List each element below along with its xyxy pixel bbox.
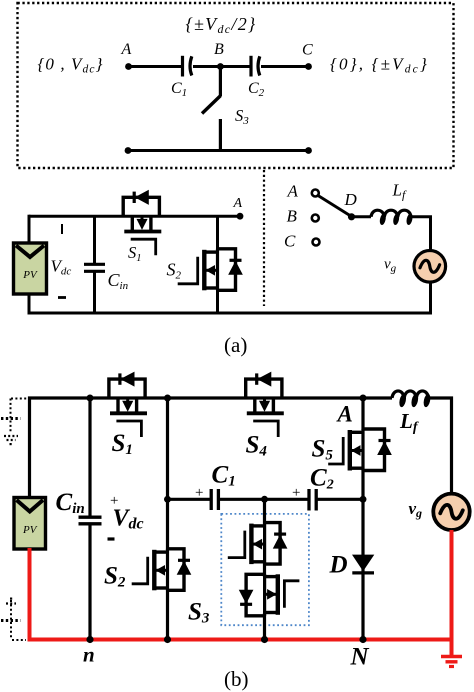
capacitor Cin (b): [79, 398, 102, 640]
switch S3 (concept): [202, 67, 221, 151]
svg-text:D: D: [344, 190, 358, 209]
svg-text:B: B: [214, 41, 224, 58]
S3 dotted box: [221, 514, 309, 625]
dotted divider (a): [263, 170, 265, 306]
node C: [305, 63, 312, 70]
node B: [217, 63, 224, 70]
svg-text:S5: S5: [312, 436, 334, 464]
PV panel (b): [14, 498, 46, 550]
(a) top wire: [29, 215, 240, 218]
junction dots on red rail: [86, 636, 93, 643]
wire between S3 mosfets: [263, 562, 266, 577]
node A (b): [360, 395, 367, 402]
wire A-B-C top line: [129, 65, 309, 68]
capacitor Cin (a): [84, 216, 105, 313]
wire into S3 box: [263, 499, 266, 524]
svg-text:S3: S3: [188, 599, 210, 627]
switch S3 upper mosfet: [228, 523, 287, 565]
svg-text:PV: PV: [22, 269, 38, 281]
svg-text:Cin: Cin: [56, 489, 85, 517]
svg-text:C2: C2: [310, 465, 334, 493]
ground symbol: [441, 657, 462, 667]
wire D to Lf (a): [352, 215, 372, 218]
svg-text:+: +: [195, 485, 203, 501]
svg-text:n: n: [83, 643, 95, 667]
wire vg to bottom (a): [429, 281, 432, 315]
PV panel (a): [14, 243, 47, 294]
wire S5 to C2 node: [361, 469, 364, 499]
minus (a): [58, 296, 66, 299]
svg-text:Cin: Cin: [108, 270, 129, 292]
svg-text:{0 , Vdc}: {0 , Vdc}: [38, 55, 104, 76]
svg-text:B: B: [287, 207, 298, 226]
node A (a): [237, 213, 244, 220]
(b) top wire: [30, 398, 452, 498]
diode D: [361, 499, 364, 639]
svg-text:(b): (b): [224, 667, 249, 691]
svg-text:S1: S1: [128, 243, 142, 264]
svg-text:S4: S4: [246, 432, 268, 460]
(a) bottom wire: [29, 312, 431, 315]
svg-text:S1: S1: [112, 430, 133, 458]
wire Lf to vg (a): [411, 217, 431, 252]
svg-text:N: N: [350, 644, 370, 671]
inductor Lf (b): [392, 391, 429, 398]
junction dot Vdc branch top: [164, 395, 171, 402]
red return rail: [28, 530, 452, 655]
source vg (b): [433, 494, 469, 530]
switch blade D (a): [318, 196, 352, 217]
svg-text:+: +: [292, 485, 300, 501]
switch S4 (b): [246, 372, 284, 437]
wire S3 to red rail: [263, 613, 266, 640]
svg-text:C1: C1: [171, 80, 187, 99]
dotted ground mark bottom-left: [1, 598, 26, 641]
svg-text:C: C: [284, 232, 296, 251]
wire Vdc/S2 branch: [166, 398, 169, 550]
svg-text:S3: S3: [235, 106, 249, 127]
node A: [125, 63, 132, 70]
switch S3 lower mosfet: [240, 574, 300, 616]
svg-text:S2: S2: [167, 260, 182, 282]
svg-text:C2: C2: [248, 80, 265, 99]
svg-text:{0}, {±Vdc}: {0}, {±Vdc}: [330, 55, 429, 76]
svg-text:C: C: [302, 42, 313, 59]
inductor Lf (a): [371, 210, 411, 217]
svg-text:A: A: [287, 182, 299, 201]
minus Vdc (b): [108, 537, 115, 540]
svg-text:{±Vdc/2}: {±Vdc/2}: [186, 14, 257, 36]
source vg (a): [414, 250, 446, 282]
svg-text:A: A: [336, 402, 353, 427]
switch S1 (b): [109, 372, 147, 437]
switch S1 (a): [123, 191, 161, 256]
switch S2 (b): [132, 549, 191, 591]
capacitor C1 (concept): [183, 56, 192, 77]
svg-text:Vdc: Vdc: [113, 506, 144, 533]
dashed concept box: [18, 3, 454, 168]
svg-text:A: A: [233, 196, 243, 211]
svg-text:Lf: Lf: [399, 409, 419, 435]
wire S2 branch (a): [216, 216, 219, 250]
svg-text:C1: C1: [212, 462, 236, 490]
svg-text:A: A: [121, 41, 132, 58]
svg-text:Lf: Lf: [392, 181, 407, 202]
svg-text:D: D: [329, 552, 348, 579]
(a) left vertical wires: [28, 215, 31, 244]
svg-text:(a): (a): [224, 333, 247, 357]
capacitor C1 (b): [211, 489, 218, 510]
wire A to S5: [361, 398, 364, 430]
middle wire C1 C2 row: [168, 498, 364, 501]
svg-text:S2: S2: [104, 563, 126, 591]
junction dot Cin top: [87, 395, 94, 402]
switch S2 (a): [178, 249, 242, 290]
capacitor C2 (b): [309, 489, 316, 511]
dotted ground mark top-left: [1, 399, 28, 446]
svg-text:PV: PV: [22, 524, 38, 536]
switch S5 (b): [328, 429, 391, 471]
plus tick (a): [61, 224, 63, 234]
svg-text:Vdc: Vdc: [51, 257, 72, 278]
bottom rail of concept box: [128, 149, 309, 152]
svg-text:vg: vg: [409, 499, 423, 520]
capacitor C2 (concept): [251, 56, 260, 77]
svg-text:vg: vg: [384, 257, 397, 275]
